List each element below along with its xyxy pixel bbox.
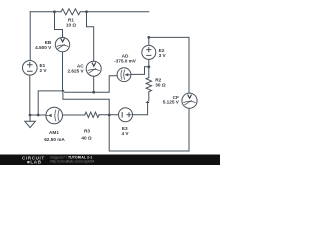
svg-text:62.50 mA: 62.50 mA xyxy=(44,137,65,142)
svg-text:http://circuitlab.com/c/gdv54: http://circuitlab.com/c/gdv54 xyxy=(50,160,95,164)
svg-text:3 V: 3 V xyxy=(159,53,167,58)
svg-text:4 V: 4 V xyxy=(121,131,129,136)
svg-text:-375.0 mV: -375.0 mV xyxy=(114,59,137,64)
svg-text:10 Ω: 10 Ω xyxy=(66,22,77,27)
svg-text:2 V: 2 V xyxy=(40,68,48,73)
svg-text:R3: R3 xyxy=(84,129,90,134)
svg-text:5.125 V: 5.125 V xyxy=(163,100,180,105)
svg-text:4.500 V: 4.500 V xyxy=(35,45,52,50)
svg-text:40 Ω: 40 Ω xyxy=(81,136,92,141)
svg-text:2.625 V: 2.625 V xyxy=(68,68,85,73)
svg-text:30 Ω: 30 Ω xyxy=(155,83,166,88)
svg-text:AM1: AM1 xyxy=(49,130,59,135)
svg-text:E2: E2 xyxy=(159,48,165,53)
svg-text:■LAB: ■LAB xyxy=(27,160,42,165)
